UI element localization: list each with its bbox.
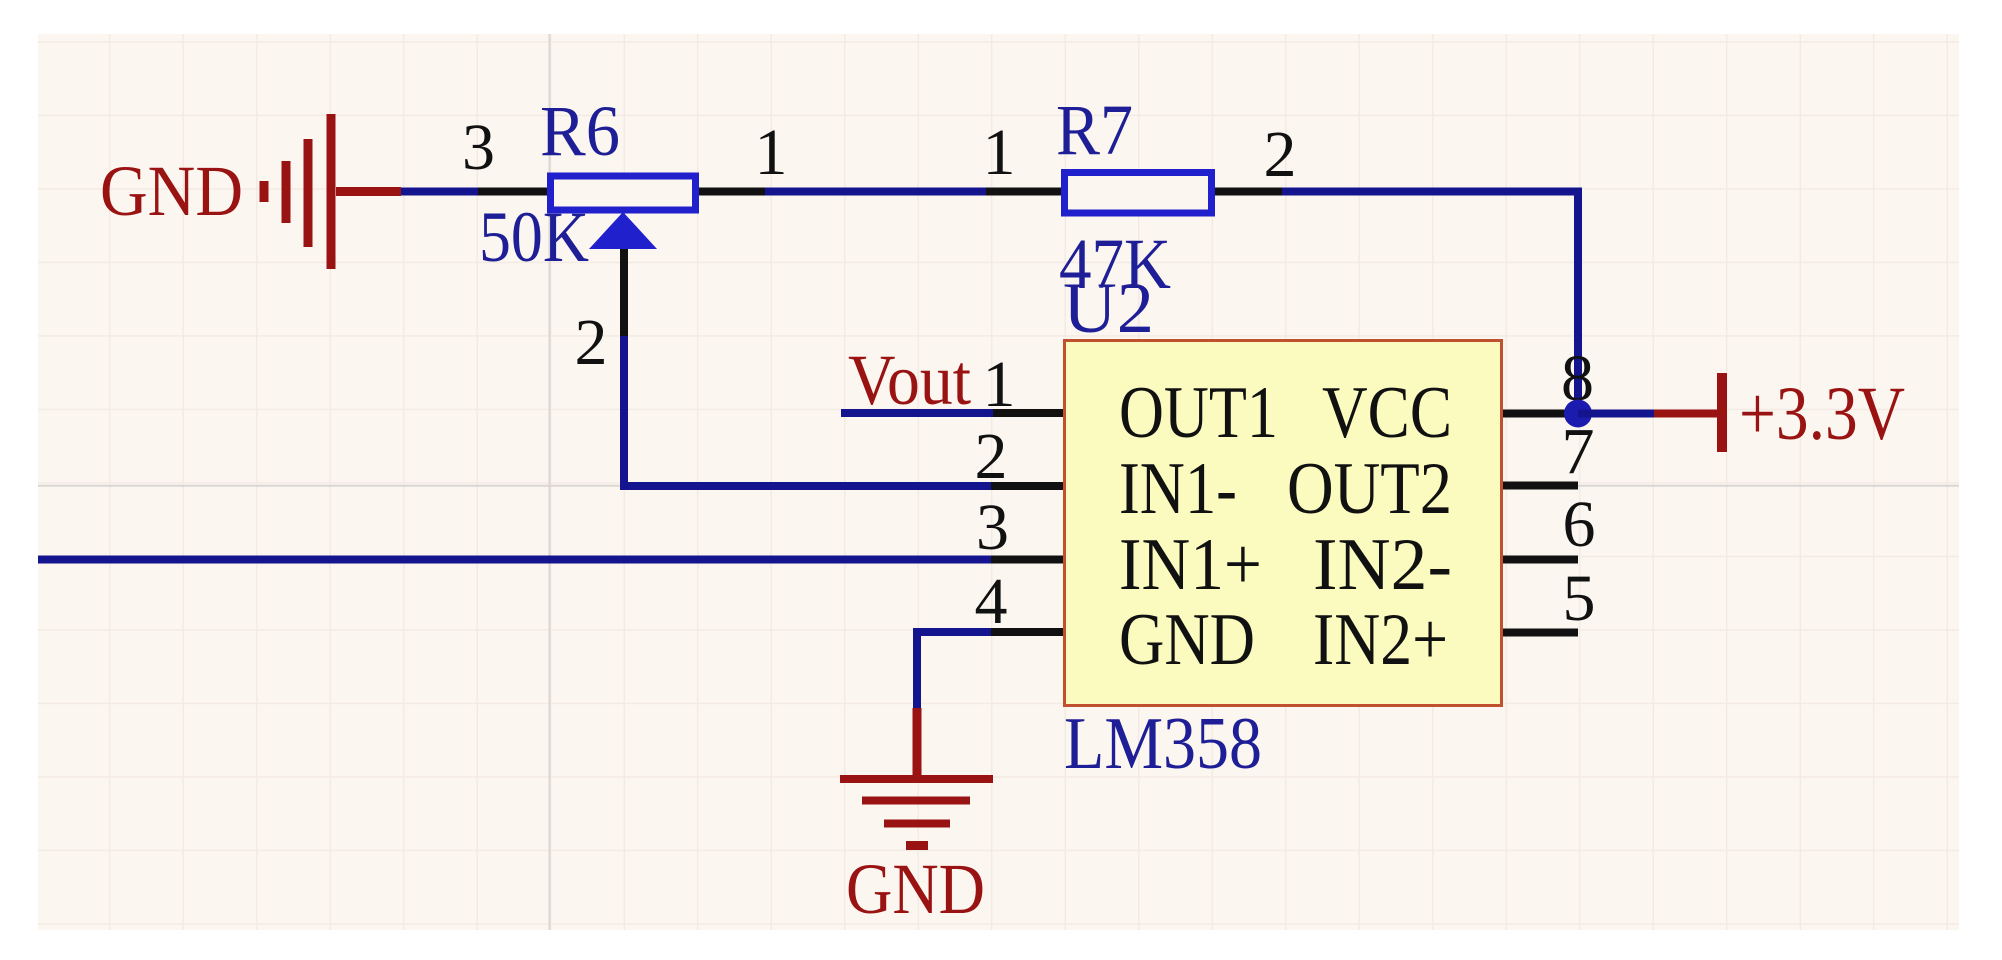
svg-text:IN1+: IN1+ — [1119, 524, 1262, 606]
pin 2 stub (IN1-) — [991, 482, 1063, 490]
svg-text:OUT1: OUT1 — [1119, 372, 1278, 454]
ground GND (left power port) — [264, 114, 401, 269]
wire Vout — [841, 409, 993, 417]
svg-text:2: 2 — [575, 306, 608, 379]
resistor R7 body — [1065, 173, 1212, 214]
pin 4 stub (GND) — [991, 628, 1063, 636]
pin 3 stub of R6 — [478, 188, 547, 196]
potentiometer R6 wiper arrow — [589, 212, 657, 249]
pin 5 stub (IN2+) — [1503, 629, 1578, 637]
pin 1 stub (OUT1) — [993, 409, 1063, 417]
svg-text:3: 3 — [462, 111, 495, 184]
svg-text:1: 1 — [755, 116, 788, 189]
cursor crosshair horizontal — [38, 485, 1959, 487]
pin 1 stub of R6 — [699, 188, 765, 196]
svg-text:2: 2 — [975, 420, 1008, 493]
ground (earth, bottom) — [840, 779, 993, 846]
junction node (pin8/VCC) — [1564, 400, 1592, 428]
potentiometer R6 body — [551, 176, 696, 210]
wire IN1+ long — [38, 556, 991, 564]
op-amp U2 LM358 body — [1065, 341, 1502, 706]
pin 2 stub of R7 — [1215, 188, 1282, 196]
svg-text:U2: U2 — [1063, 268, 1154, 348]
pin 6 stub (IN2-) — [1503, 556, 1578, 564]
svg-text:IN2-: IN2- — [1313, 524, 1452, 606]
svg-text:1: 1 — [983, 348, 1016, 421]
svg-text:R6: R6 — [540, 91, 620, 171]
cursor crosshair vertical — [549, 34, 551, 930]
svg-text:+3.3V: +3.3V — [1739, 372, 1905, 456]
svg-text:LM358: LM358 — [1064, 703, 1262, 785]
wiper pin stub (black) — [620, 249, 628, 336]
wire R6 to R7 — [765, 188, 986, 196]
svg-text:2: 2 — [1264, 118, 1297, 191]
wire junction to +3.3V — [1578, 410, 1654, 418]
wire GND to R6 pin3 — [401, 188, 478, 196]
power +3.3V lead — [1654, 410, 1720, 418]
svg-text:4: 4 — [975, 565, 1008, 638]
svg-text:IN2+: IN2+ — [1313, 599, 1448, 681]
svg-text:6: 6 — [1563, 488, 1596, 561]
pin 7 stub (OUT2) — [1503, 482, 1578, 490]
ground lead (red) — [913, 708, 922, 779]
power +3.3V bar — [1717, 373, 1727, 452]
svg-text:1: 1 — [983, 116, 1016, 189]
svg-text:5: 5 — [1563, 562, 1596, 635]
wire R7 to VCC corner — [1282, 192, 1578, 414]
svg-text:GND: GND — [846, 849, 985, 929]
svg-text:R7: R7 — [1056, 90, 1133, 170]
svg-text:50K: 50K — [479, 197, 589, 277]
svg-text:OUT2: OUT2 — [1287, 448, 1452, 530]
svg-text:IN1-: IN1- — [1119, 448, 1237, 530]
pin 8 stub (VCC) — [1503, 410, 1578, 418]
svg-text:VCC: VCC — [1322, 372, 1452, 454]
pin 3 stub (IN1+) — [991, 556, 1063, 564]
wire GND pin4 — [917, 632, 991, 708]
pin 1 stub of R7 — [986, 188, 1061, 196]
svg-text:3: 3 — [976, 491, 1009, 564]
svg-text:GND: GND — [100, 151, 243, 231]
svg-text:Vout: Vout — [848, 340, 971, 420]
wire wiper to IN1- — [624, 336, 991, 486]
svg-text:GND: GND — [1119, 599, 1255, 681]
